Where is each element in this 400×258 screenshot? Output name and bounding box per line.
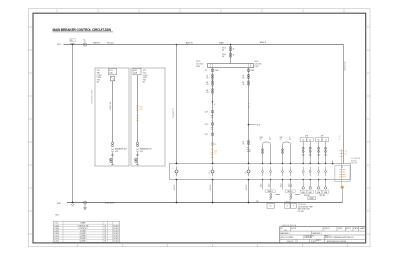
svg-text:15-W-6: 15-W-6 [113, 233, 118, 235]
svg-text:62: 62 [290, 199, 292, 201]
svg-text:1-2C-4: 1-2C-4 [54, 236, 59, 238]
svg-text:42: 42 [339, 136, 341, 138]
svg-text:CONTROL 2: CONTROL 2 [78, 228, 87, 230]
svg-text:TRIP BF: TRIP BF [304, 195, 310, 197]
svg-text:CS: CS [242, 78, 244, 80]
svg-text:52: 52 [214, 144, 216, 146]
svg-text:TRIP BF: TRIP BF [319, 195, 325, 197]
svg-text:14-W-6: 14-W-6 [113, 228, 118, 230]
svg-text:CONTROL PWR: CONTROL PWR [92, 90, 94, 104]
svg-text:52: 52 [206, 76, 208, 78]
svg-text:A12: A12 [248, 149, 251, 152]
svg-text:43: 43 [242, 82, 244, 84]
svg-text:52 BKR 1: 52 BKR 1 [80, 233, 87, 235]
svg-text:52: 52 [242, 141, 244, 143]
svg-text:AWG N: AWG N [260, 41, 267, 44]
svg-text:52 BKR: 52 BKR [80, 230, 86, 232]
svg-text:15-W-4: 15-W-4 [113, 230, 118, 232]
svg-text:AWG N: AWG N [186, 42, 193, 45]
svg-text:CS: CS [206, 84, 208, 86]
svg-text:52 BKR 4: 52 BKR 4 [80, 241, 87, 243]
svg-text:52: 52 [242, 76, 244, 78]
svg-text:52 BKR 2: 52 BKR 2 [80, 236, 87, 238]
svg-text:50: 50 [318, 139, 320, 141]
svg-text:CS: CS [242, 143, 244, 145]
svg-text:CS: CS [242, 84, 244, 86]
svg-text:TB-1: TB-1 [55, 215, 59, 217]
svg-text:WT-101: WT-101 [107, 43, 114, 45]
svg-text:52: 52 [134, 159, 136, 161]
svg-text:41: 41 [339, 139, 341, 141]
svg-text:485244: 485244 [246, 185, 248, 191]
svg-text:CS: CS [206, 78, 208, 80]
svg-text:05-25-21: 05-25-21 [287, 241, 293, 243]
svg-text:J2: J2 [221, 42, 223, 44]
svg-text:485244: 485244 [174, 185, 176, 191]
svg-text:86BF: 86BF [310, 198, 314, 200]
svg-text:CONT BKR 4: CONT BKR 4 [305, 236, 315, 238]
svg-text:86BF1: 86BF1 [268, 191, 273, 193]
svg-text:125VDC B2: 125VDC B2 [344, 61, 346, 70]
svg-text:N.O. 4: N.O. 4 [249, 103, 251, 108]
svg-text:1-2B-4: 1-2B-4 [54, 230, 59, 232]
svg-text:51: 51 [309, 139, 311, 141]
svg-text:CONTROL SW: CONTROL SW [78, 225, 89, 227]
svg-text:14-W-4: 14-W-4 [113, 225, 118, 227]
svg-text:SCH 115 KV/BKR: SCH 115 KV/BKR [281, 237, 294, 239]
svg-text:4852: 4852 [288, 183, 290, 187]
svg-text:21: 21 [205, 70, 207, 72]
svg-text:4852: 4852 [260, 183, 262, 187]
svg-text:86BF1: 86BF1 [288, 191, 293, 193]
svg-text:4852: 4852 [280, 183, 282, 187]
svg-text:PNL 2A: PNL 2A [351, 162, 358, 165]
svg-text:498: 498 [305, 135, 308, 137]
svg-text:1-2D-4: 1-2D-4 [54, 241, 59, 243]
svg-text:1-2C-6: 1-2C-6 [54, 238, 59, 240]
svg-text:1 05: 1 05 [284, 230, 287, 232]
svg-text:62: 62 [270, 199, 272, 201]
svg-text:B1: B1 [143, 82, 145, 84]
svg-text:PW-: PW- [57, 203, 61, 205]
svg-text:86B: 86B [324, 192, 327, 194]
svg-text:NAME: NAME [81, 222, 87, 225]
svg-text:MAIN BREAKER CONTROL CIRCUIT-5: MAIN BREAKER CONTROL CIRCUIT-52W [53, 28, 112, 32]
svg-text:FU3: FU3 [222, 48, 225, 50]
svg-text:AWG N: AWG N [94, 42, 101, 45]
svg-text:DWG N: DWG N [324, 228, 330, 230]
svg-text:125VDC P1: 125VDC P1 [173, 108, 175, 118]
svg-text:86B: 86B [309, 192, 312, 194]
svg-text:OPT: OPT [140, 109, 143, 111]
svg-text:CAD FILE 4852-1A: CAD FILE 4852-1A [282, 224, 297, 227]
svg-text:4: 4 [214, 104, 215, 106]
svg-text:CS: CS [206, 92, 208, 94]
svg-text:16-W-4: 16-W-4 [113, 236, 118, 238]
svg-text:52: 52 [109, 159, 111, 161]
svg-text:1: 1 [297, 241, 298, 243]
svg-text:4852: 4852 [268, 183, 270, 187]
svg-text:52 BKR 3: 52 BKR 3 [80, 238, 87, 240]
svg-text:4852: 4852 [291, 183, 293, 187]
svg-text:43: 43 [206, 82, 208, 84]
svg-text:A1: A1 [97, 81, 99, 84]
svg-text:WIRE 1A: WIRE 1A [109, 102, 112, 110]
svg-text:FU4: FU4 [222, 54, 225, 56]
svg-text:499: 499 [321, 135, 324, 137]
svg-text:485244: 485244 [210, 185, 212, 191]
svg-text:B: B [233, 55, 234, 57]
svg-text:1-2B-6: 1-2B-6 [54, 233, 59, 235]
svg-text:16-W-6: 16-W-6 [113, 238, 118, 240]
svg-text:51: 51 [325, 139, 327, 141]
svg-text:PD 21R: PD 21R [298, 211, 305, 213]
svg-text:17-W-4: 17-W-4 [113, 241, 118, 243]
svg-text:69: 69 [206, 90, 208, 92]
svg-text:50: 50 [302, 139, 304, 141]
svg-text:GRD BUS: GRD BUS [105, 202, 115, 204]
svg-text:T: T [293, 206, 294, 208]
